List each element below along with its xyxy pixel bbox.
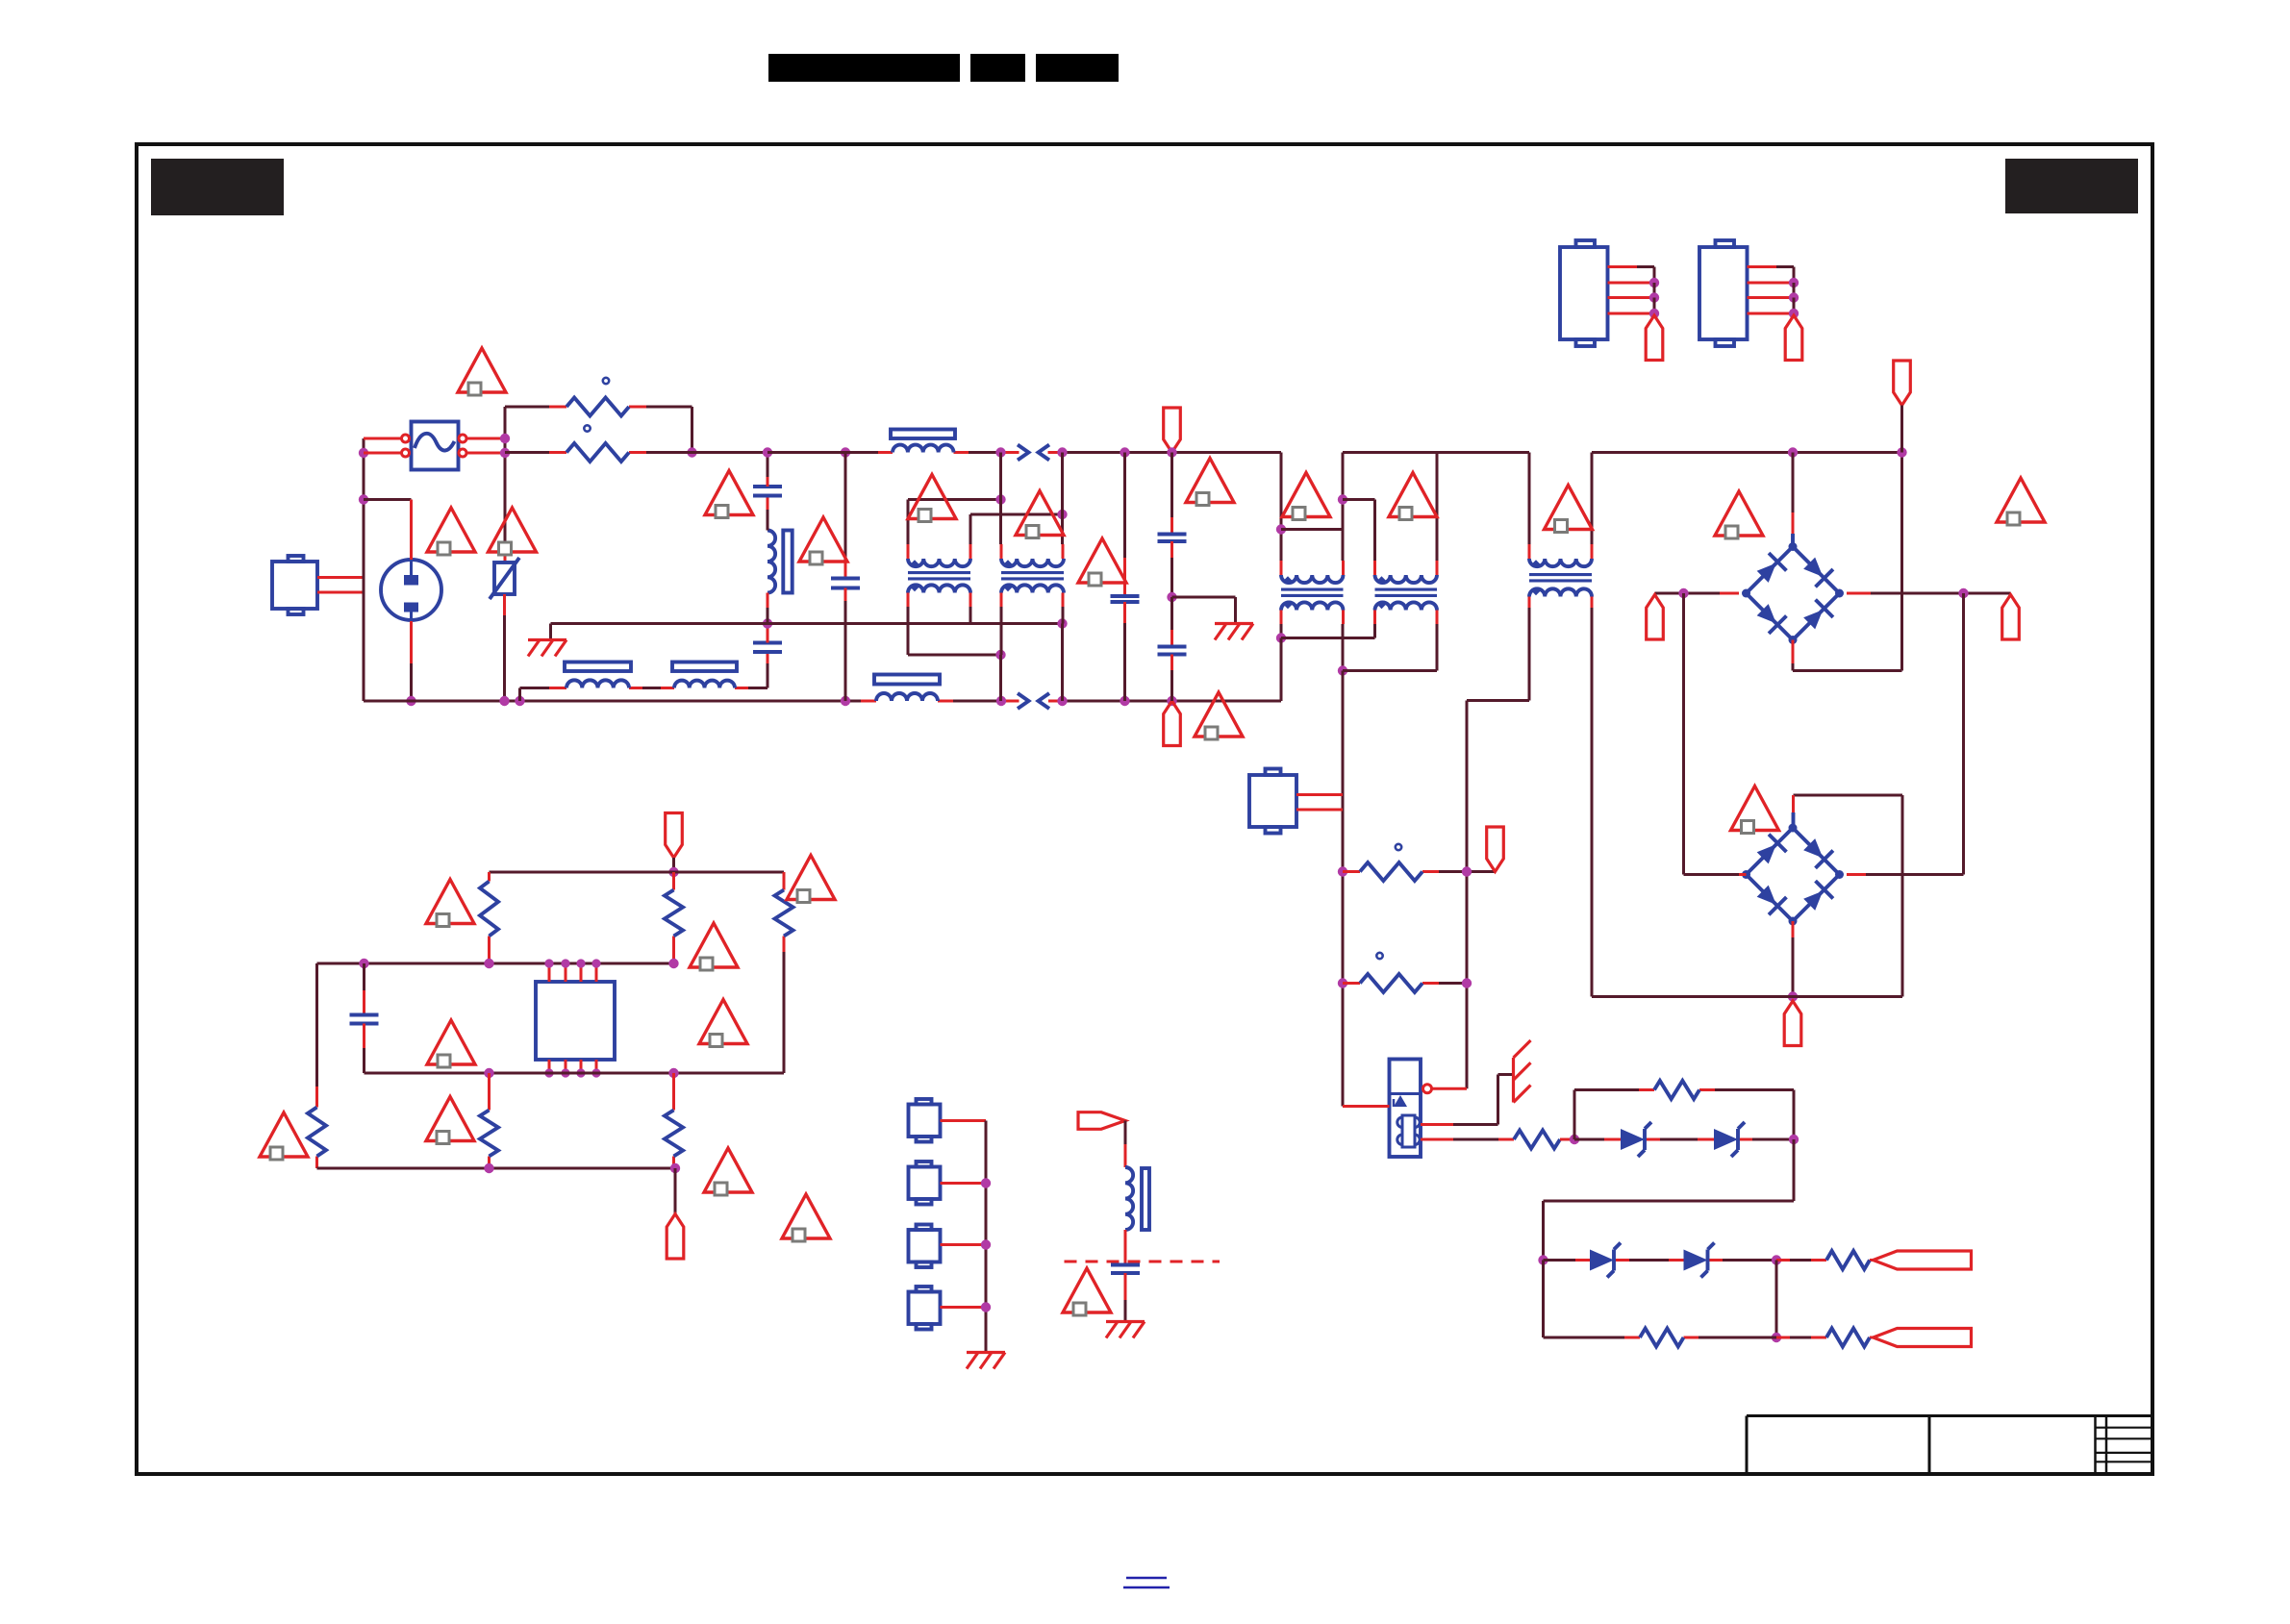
wire x1040.5 vertical (999, 453, 1002, 500)
thermistor RT2 (566, 443, 629, 462)
node rail x1977.5 (1897, 447, 1906, 457)
warning triangle far left (260, 1112, 308, 1157)
resistor R1 legs (488, 872, 491, 882)
wire top rail segment 3 (1592, 451, 1902, 454)
bridge rectifier BR2 (1747, 828, 1840, 921)
node choke2/bottom-rail (996, 696, 1006, 706)
node y1002 x378.5 (359, 959, 368, 968)
wire J4 pin3 (1748, 296, 1795, 299)
wire x1332 to bottom rail (1280, 638, 1283, 702)
thermal circle RT4 (1376, 953, 1382, 959)
net flag down x1218.5 (1164, 408, 1181, 453)
wire C7 to node (1170, 541, 1173, 558)
wire BR1 right out (1847, 592, 1871, 595)
wire BR2 bottom (1792, 921, 1795, 937)
inductor L3 (876, 693, 938, 701)
black redaction bar 1 (title) (768, 54, 960, 82)
bridge rectifier BR1 (1747, 547, 1840, 640)
node flag x1218.5 (1167, 447, 1176, 457)
node BR1-left x1750.5 (1678, 588, 1688, 598)
wire y1215 row (317, 1167, 676, 1170)
wire branch x879 (844, 453, 847, 563)
IC U1 bottom pin nodes (544, 1068, 553, 1077)
wire U2 out A (1421, 1123, 1453, 1126)
node x700.5 y907 (668, 867, 678, 877)
node x1332 y663.5 (1276, 633, 1286, 642)
wire U2 input (1343, 1105, 1390, 1108)
warning triangle near plug left (427, 508, 475, 552)
wire x1525 vertical (1466, 701, 1469, 1089)
U2 terminal circle (1423, 1085, 1432, 1093)
isolation dashed line (1065, 1261, 1220, 1263)
resistor R2 (665, 890, 683, 937)
wire branch x1218.5 lower (1170, 597, 1173, 630)
schematic border frame (137, 144, 2152, 1474)
node x1525 y1022.5 (1462, 978, 1472, 987)
node bus y1359.5 (981, 1302, 991, 1312)
node EMI-choke/bottom-rail (515, 696, 524, 706)
wire rail to C1 (767, 453, 769, 478)
resistor R2 legs (672, 872, 675, 890)
wire zener row2 (1544, 1259, 1576, 1262)
wire choke3 bottom-left (1280, 611, 1283, 625)
zener D2 (1714, 1129, 1738, 1150)
inductor L5 with core (1125, 1167, 1133, 1230)
node left-rail/plug-branch (359, 494, 368, 504)
wire CY2 to node (767, 624, 769, 643)
wire x1396 down (1342, 671, 1345, 1107)
node rail x1040.5 (995, 447, 1005, 457)
wire T1 bottom-right (1591, 597, 1594, 609)
wire choke1 top-left feed (908, 498, 1001, 501)
wire J6 pin (941, 1119, 987, 1122)
wire J3 pin2 (1608, 282, 1655, 285)
wire y535 line (970, 513, 1063, 516)
chassis ground G4 (1106, 1320, 1145, 1323)
warning triangle below rail x1242 (1195, 692, 1243, 737)
inductor L0 (893, 445, 954, 453)
node y1036.5 x1864 (1788, 991, 1798, 1001)
resistor R4 (480, 1111, 498, 1157)
thermistor RT4 (1360, 974, 1422, 992)
warning triangle left of IC (427, 1020, 475, 1064)
wire branch x1218.5 upper (1170, 453, 1173, 518)
wire cap C5 branch (363, 963, 365, 990)
node x525 bottom-row (500, 448, 510, 458)
wire top rail L0 stubs (878, 451, 893, 454)
wire J3 pin1 (1608, 265, 1638, 268)
wire y697.5 (1343, 669, 1437, 672)
node rail x798 (763, 447, 772, 457)
wire J7 pin (941, 1182, 987, 1185)
title block (1747, 1414, 2152, 1417)
spark gap SG1 (1018, 445, 1029, 461)
wire row B right (1776, 1337, 1790, 1339)
warning triangle near T1 (1545, 486, 1593, 530)
wire choke1 bottom-right (969, 593, 972, 608)
node y1002 x700.5 (668, 959, 678, 968)
net flag up IC-bottom (667, 1214, 684, 1260)
wire choke1 bottom-left (907, 593, 910, 608)
node x1104.5 y535 (1057, 510, 1067, 519)
net flag down x1554.5 (1487, 827, 1504, 872)
node rail x1864 (1788, 447, 1798, 457)
wire y519.5 to choke4 (1343, 498, 1375, 501)
capacitor C1 (753, 485, 782, 488)
node x1396 y1022.5 (1338, 978, 1347, 987)
net flag down VCC (1894, 361, 1911, 406)
IC U1 top pins (548, 963, 551, 982)
chassis ground G3 (967, 1351, 1005, 1354)
net flag up J3 (1646, 315, 1663, 361)
wire C6 to ground (1124, 1273, 1127, 1300)
wire choke3 bottom-right (1342, 611, 1345, 625)
wire y907 row (490, 871, 785, 874)
node capC3/bottom-rail (841, 696, 850, 706)
thermistor RT1 (566, 398, 629, 416)
node plug/bottom-rail (406, 696, 415, 706)
resistor R5 (665, 1111, 683, 1157)
node y-line x798 (763, 618, 772, 628)
black redaction box top-left (151, 159, 284, 215)
wire y1116 row (365, 1072, 785, 1075)
node J3 pin2 (1649, 278, 1659, 287)
node J3 pin4 (1649, 309, 1659, 318)
wire vertical x525 (504, 407, 507, 548)
connector J2 (1249, 775, 1296, 827)
connector J9 (909, 1292, 941, 1325)
wire bottom rail (364, 700, 861, 703)
node rail x1169.5 (1120, 447, 1129, 457)
connector J6 (909, 1105, 941, 1137)
wire J4 pin2 (1748, 282, 1795, 285)
IC U1 (536, 982, 615, 1060)
capacitor C4 (1111, 594, 1140, 598)
wire BR1 bottom loop (1792, 640, 1795, 664)
node x1040.5 y519.5 (995, 494, 1005, 504)
warning triangle near C1 (705, 471, 753, 515)
varistor RV1 (494, 562, 515, 594)
node x1847 y1310.5 (1772, 1255, 1781, 1264)
node varistor/bottom-rail (499, 696, 509, 706)
warning triangle near C3 (799, 517, 847, 562)
node bus y1294.5 (981, 1239, 991, 1249)
capacitor C6 (1111, 1263, 1140, 1267)
node x1865 y1185 (1789, 1135, 1799, 1144)
node x1637 y1185 (1570, 1135, 1579, 1144)
wire to chassis gnd G5 (1172, 596, 1236, 599)
node x1104.5 y648.5 (1057, 618, 1067, 628)
wire choke2 bottom-right (1062, 593, 1065, 608)
node x1847 y1391 (1772, 1333, 1781, 1342)
chassis ground G2 (1512, 1058, 1515, 1103)
wire J9 pin (941, 1306, 987, 1309)
resistor R11 (1654, 1081, 1699, 1099)
net flag up BR1-right (2002, 595, 2020, 640)
node J4 pin2 (1789, 278, 1799, 287)
resistor R5 legs (672, 1073, 675, 1111)
wire x2041.5 vertical (1962, 593, 1965, 875)
connector J7 (909, 1167, 941, 1200)
spark gap SG2 (1018, 693, 1029, 709)
wire RT4 row (1343, 982, 1360, 985)
node BR1-right x2041.5 (1958, 588, 1968, 598)
warning triangle lower right of IC (782, 1194, 830, 1238)
footer equals mark (1126, 1577, 1167, 1580)
wire x1750.5 vertical (1682, 593, 1685, 875)
common-mode choke CM4 (1375, 575, 1438, 583)
capacitor C8 (1158, 645, 1187, 649)
net flag up BR1-left (1647, 595, 1664, 640)
wire top rail mid (768, 451, 878, 454)
wire choke4 top-right (1436, 561, 1439, 575)
wire thermistor bypass top (505, 406, 549, 409)
connector J4 (1699, 247, 1748, 339)
warning triangle near varistor (489, 508, 537, 552)
resistor R1 (480, 882, 498, 937)
wire BR2 left feed (1684, 873, 1740, 876)
net flag up BR2-bottom (1784, 1001, 1801, 1046)
wire left branch (315, 963, 318, 1087)
resistor R6 (308, 1108, 326, 1157)
zener D1 (1621, 1129, 1645, 1150)
wire L4 to CY2top (767, 593, 769, 609)
node left-rail/fuse-bottom (359, 448, 368, 458)
warning triangle near flag x1218 (1186, 459, 1234, 503)
wire C3 to rail (844, 588, 847, 602)
capacitor CY2 (753, 641, 782, 645)
wire x1332 vertical (1280, 453, 1283, 530)
wire to lower block (1793, 1139, 1796, 1201)
wire y827 link (1794, 794, 1903, 797)
wire J2 pin2 (1296, 809, 1343, 812)
node J4 pin3 (1789, 292, 1799, 302)
wire C5 down (363, 1024, 365, 1049)
wire J1 pin1 (317, 576, 364, 579)
wire J3 pin3 (1608, 296, 1655, 299)
node x1218.5 y621 (1167, 592, 1176, 602)
net flag up below rail x1218.5 (1164, 701, 1181, 746)
node J4 pin4 (1789, 309, 1799, 318)
node x1396 y906.5 (1338, 866, 1347, 876)
warning triangle right of R2 (690, 923, 738, 967)
wire J1 pin2 (317, 591, 364, 594)
wire ground line y648 (551, 622, 1063, 625)
resistor R4 legs (488, 1073, 491, 1111)
node y1116 x508.5 (484, 1068, 493, 1078)
wire J4 pin4 (1748, 312, 1795, 315)
wire BR2 right out (1847, 873, 1866, 876)
chassis ground G1 (528, 638, 566, 641)
wire C8 to rail (1170, 655, 1173, 671)
connector J3 (1560, 247, 1608, 339)
resistor R13 (1640, 1329, 1684, 1347)
capacitor C5 (350, 1013, 379, 1017)
node y1215 x508.5 (484, 1163, 493, 1173)
wire after SG1 (1048, 451, 1063, 454)
net flag right antenna (1078, 1112, 1125, 1130)
warning triangle near CM3 (1282, 473, 1330, 517)
warning triangle above R1 (426, 880, 474, 924)
warning triangle right of IC (699, 1000, 747, 1044)
wire y1036.5 (1592, 995, 1902, 998)
IC U1 bottom pins (548, 1060, 551, 1073)
node J3 pin3 (1649, 292, 1659, 302)
wire R12 row (1776, 1259, 1790, 1262)
warning triangle near CM1 (908, 475, 956, 519)
capacitor C7 (1158, 533, 1187, 537)
thermal circle RT1 (603, 378, 609, 384)
wire x1104.5 vertical (1061, 453, 1064, 515)
resistor R12 (1826, 1251, 1870, 1269)
wire C4 to rail (1123, 602, 1126, 623)
wire fuse left top (364, 437, 402, 440)
wire top rail segment 2 (1343, 451, 1529, 454)
node x1332 y550.5 (1276, 524, 1286, 534)
wire T1 primary left (1528, 453, 1531, 545)
wire x1978 vertical (1901, 795, 1904, 997)
node rail x1104.5 (1057, 447, 1067, 457)
wire y550.5 (1281, 528, 1343, 531)
zener D4 (1684, 1250, 1708, 1271)
capacitor C3 (831, 577, 860, 581)
resistor R14 (1826, 1329, 1870, 1347)
wire choke1 top-right (969, 544, 972, 559)
wire U2 circle to x1525 (1432, 1087, 1468, 1090)
zener D3 (1590, 1250, 1614, 1271)
net flag left out2 (1874, 1329, 1972, 1347)
wire main row after fuse (505, 451, 549, 454)
node x525 top-row (500, 434, 510, 443)
wire J8 pin (941, 1243, 987, 1246)
warning triangle below-left of IC (426, 1097, 474, 1141)
wire connector stack bus (985, 1121, 988, 1353)
black redaction box top-right (2005, 159, 2138, 213)
node flag/bottom-rail (1167, 696, 1176, 706)
warning triangle near antenna (1063, 1268, 1111, 1312)
node capC4/bottom-rail (1120, 696, 1129, 706)
node y1215 x702 (670, 1163, 680, 1173)
node y1002 x508.5 (484, 959, 493, 968)
connector J1 AC inlet (272, 562, 317, 609)
wire to bottom flag (674, 1168, 677, 1214)
wire T1 bottom-left (1528, 597, 1531, 609)
warning triangle far right (1997, 478, 2045, 522)
warning triangle near C4 (1078, 538, 1126, 583)
wire antenna top (1124, 1121, 1127, 1145)
wire fuse left bottom (364, 452, 402, 455)
wire U2 out B (1421, 1138, 1453, 1141)
wire varistor to rail (503, 594, 506, 615)
wire J4 pin1 (1748, 265, 1777, 268)
net flag down IC-top (666, 813, 683, 859)
transformer T1 (1529, 559, 1592, 566)
net flag up J4 (1785, 315, 1802, 361)
wire gnd drop (549, 624, 552, 639)
wire T1 top-right (1591, 544, 1594, 559)
wire EMI branch (518, 688, 521, 702)
node bypass/main-row (687, 447, 696, 457)
wire J2 pin1 (1296, 793, 1343, 796)
relay box U2 (1390, 1060, 1422, 1158)
warning triangle near CM4 (1389, 473, 1437, 517)
wire plug top branch (364, 498, 412, 501)
wire y1002 row (317, 962, 674, 965)
wire zener row1 (1574, 1138, 1604, 1141)
node rail x879 (841, 447, 850, 457)
net flag left out1 (1874, 1251, 1972, 1269)
wire L5 to cap (1124, 1230, 1127, 1265)
thermistor RT3 (1360, 862, 1422, 881)
wire choke2 bottom-left (1000, 593, 1003, 608)
inductor L2 (674, 681, 735, 688)
warning triangle near BR2 (1731, 787, 1779, 831)
wire mid vertical (1775, 1261, 1778, 1338)
common-mode choke CM3 (1281, 575, 1344, 583)
wire plug bottom (410, 621, 413, 663)
wire bridge1 top feed (1792, 453, 1795, 513)
node x1040.5 y681 (995, 650, 1005, 660)
wire fuse right top (466, 437, 501, 440)
node x1396 y519.5 (1338, 494, 1347, 504)
fuse F1 terminals (402, 435, 410, 442)
wire row B left (1542, 1261, 1545, 1338)
wire upper loop (1573, 1090, 1576, 1140)
wire BR1 left out (1720, 592, 1739, 595)
warning triangle near RT1 (458, 348, 506, 392)
AC plug symbol (381, 560, 441, 620)
IC U1 top pin nodes (544, 959, 553, 967)
wire left rail (neutral) (363, 438, 365, 701)
thermal circle RT2 (584, 425, 590, 431)
warning triangle near CM2 (1016, 491, 1064, 536)
warning triangle top right of IC block (787, 856, 835, 900)
connector J8 (909, 1230, 941, 1262)
inductor L1 (566, 680, 629, 687)
warning triangle near IC flag (704, 1148, 752, 1192)
warning triangle near BR1 (1715, 491, 1763, 536)
wire R10 to zeners (1560, 1138, 1574, 1141)
wire x1396 from rail (1342, 453, 1345, 500)
fuse F1 (412, 422, 459, 470)
wire RT3 row (1343, 870, 1360, 873)
black redaction bar 2 (title) (970, 54, 1025, 82)
resistor R10 (1514, 1131, 1560, 1149)
resistor R3 legs (783, 872, 786, 890)
wire y663.5 to choke4 (1281, 637, 1375, 639)
node sparkgap-right/bottom-rail (1057, 696, 1067, 706)
common-mode choke CM2 (1001, 559, 1064, 566)
resistor R3 (775, 890, 793, 937)
node bus y1230.5 (981, 1178, 991, 1187)
node y1116 x700.5 (668, 1068, 678, 1078)
wire C1 to L4 (767, 496, 769, 511)
chassis ground G5 (1215, 622, 1253, 625)
thermal circle RT3 (1396, 844, 1401, 850)
black redaction bar 3 (title) (1036, 54, 1119, 82)
wire bottom rail red stubs (861, 700, 876, 703)
node x1525 y906.5 (1462, 866, 1472, 876)
node x1396 y697.5 (1338, 665, 1347, 675)
wire fuse right bottom (466, 452, 501, 455)
wire cap C4 branch (1123, 453, 1126, 559)
wire J3 pin4 (1608, 312, 1655, 315)
node x1604.5 y1310.5 (1538, 1255, 1548, 1264)
inductor L4 with core (768, 531, 775, 593)
common-mode choke CM1 (908, 559, 970, 566)
